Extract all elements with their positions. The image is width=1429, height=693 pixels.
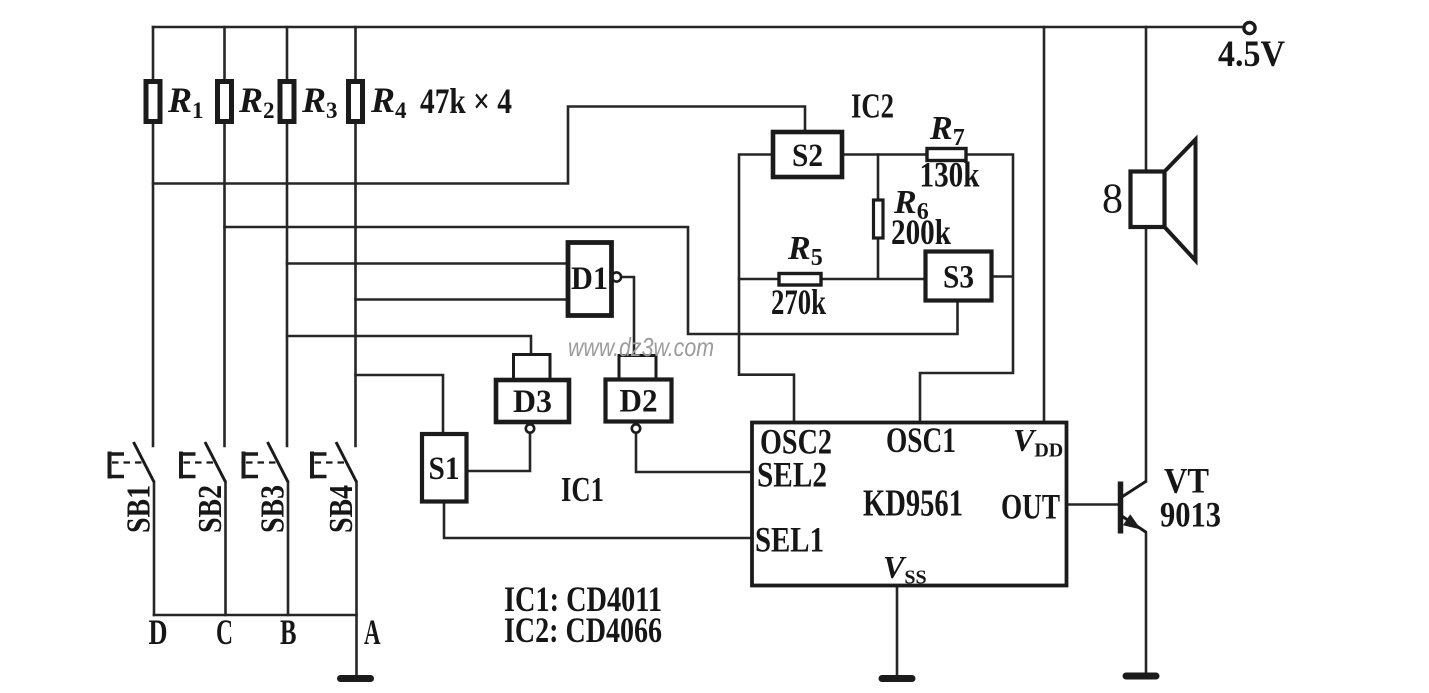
- svg-text:S2: S2: [792, 138, 823, 174]
- svg-text:SEL1: SEL1: [755, 520, 824, 560]
- svg-text:4.5V: 4.5V: [1218, 34, 1285, 75]
- svg-text:D1: D1: [571, 261, 608, 297]
- svg-text:8: 8: [1102, 177, 1123, 223]
- svg-text:200k: 200k: [891, 212, 951, 252]
- svg-text:C: C: [216, 612, 233, 652]
- svg-text:OUT: OUT: [1001, 487, 1060, 527]
- svg-text:D3: D3: [513, 384, 552, 420]
- svg-text:S3: S3: [943, 260, 974, 296]
- svg-text:D2: D2: [620, 384, 658, 420]
- svg-text:D: D: [149, 612, 168, 652]
- svg-text:IC1: IC1: [561, 470, 604, 509]
- svg-text:KD9561: KD9561: [863, 483, 963, 525]
- svg-text:47k × 4: 47k × 4: [420, 81, 512, 121]
- svg-text:SEL2: SEL2: [757, 455, 827, 495]
- svg-text:SB1: SB1: [121, 485, 158, 533]
- svg-text:SB2: SB2: [192, 485, 229, 533]
- svg-text:OSC1: OSC1: [886, 420, 956, 460]
- svg-text:B: B: [280, 612, 297, 652]
- svg-text:270k: 270k: [771, 282, 826, 322]
- svg-text:IC2: CD4066: IC2: CD4066: [504, 610, 662, 650]
- svg-text:SB3: SB3: [255, 485, 292, 533]
- svg-text:www.dz3w.com: www.dz3w.com: [568, 332, 714, 362]
- svg-text:130k: 130k: [920, 155, 980, 195]
- svg-text:9013: 9013: [1160, 495, 1221, 535]
- svg-text:SB4: SB4: [323, 485, 360, 533]
- svg-text:IC2: IC2: [851, 87, 894, 126]
- svg-text:S1: S1: [429, 451, 460, 487]
- svg-text:A: A: [364, 612, 381, 652]
